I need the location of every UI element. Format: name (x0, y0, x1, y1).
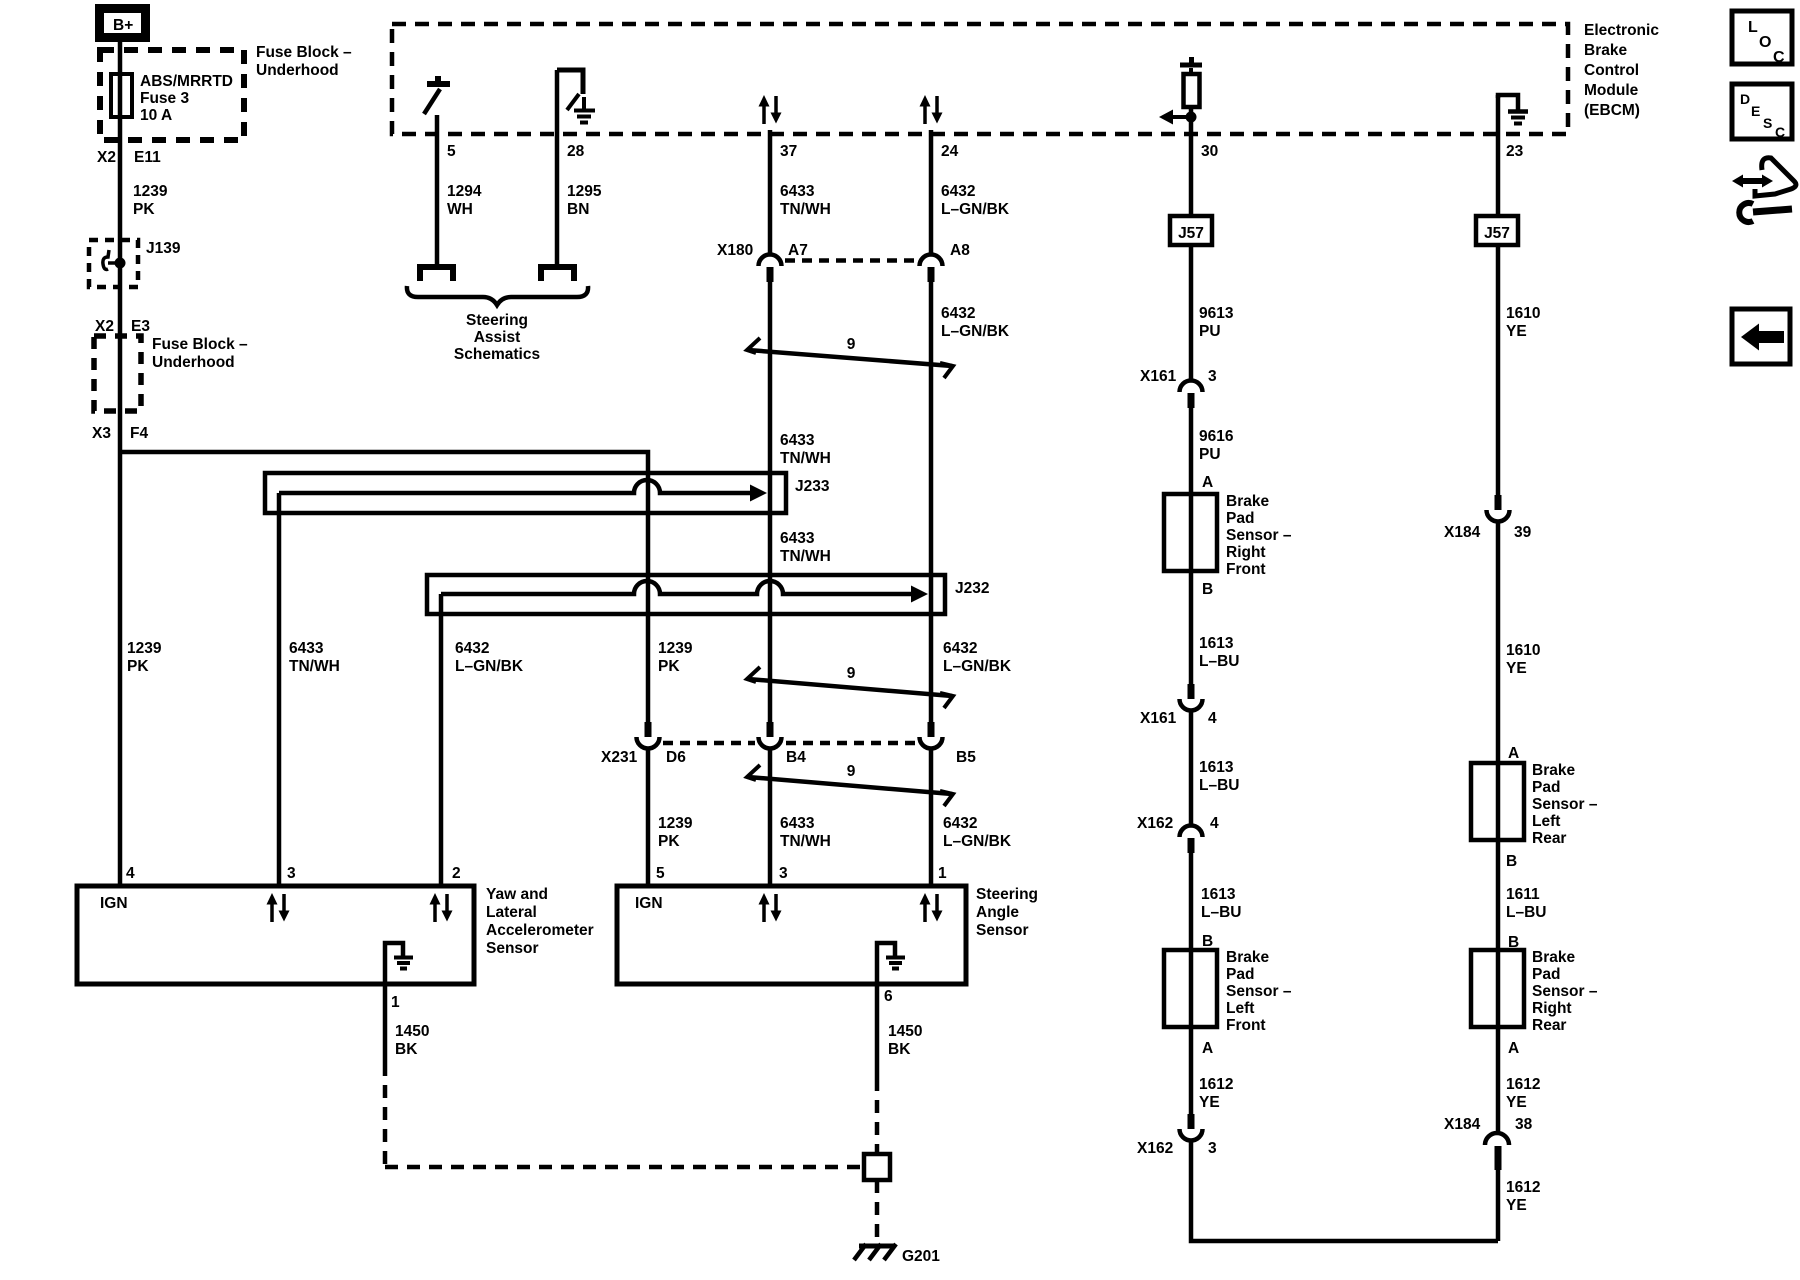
svg-text:1613: 1613 (1201, 886, 1236, 903)
connector X180 pin A8 (cap + pin) (920, 255, 943, 282)
svg-text:X2: X2 (97, 149, 116, 166)
connector X162 pin 3 (pin + cup) (1180, 1114, 1203, 1141)
svg-text:X184: X184 (1444, 524, 1481, 541)
svg-text:5: 5 (447, 143, 456, 160)
splice J57 (left) (1170, 216, 1212, 245)
connector X231 pin B4 (pin + cup) (759, 722, 782, 749)
dashed wire splice to G201 (875, 1180, 880, 1244)
svg-text:4: 4 (126, 865, 135, 882)
svg-text:Rear: Rear (1532, 830, 1566, 847)
dashed connector line X180 (785, 258, 916, 263)
svg-text:TN/WH: TN/WH (780, 833, 831, 850)
wire C5 X180 to SAS pin 3 (768, 282, 773, 722)
svg-text:F4: F4 (130, 425, 148, 442)
connector X231 pin B5 (pin + cup) (920, 722, 943, 749)
svg-text:Front: Front (1226, 1017, 1266, 1034)
svg-text:Angle: Angle (976, 904, 1019, 921)
svg-text:6: 6 (884, 988, 893, 1005)
svg-text:1239: 1239 (127, 640, 162, 657)
svg-text:TN/WH: TN/WH (780, 548, 831, 565)
svg-text:3: 3 (1208, 368, 1217, 385)
EBCM internal ground at pin 23 (1498, 95, 1528, 124)
svg-text:1294: 1294 (447, 183, 482, 200)
wire 9613 PU pin 30 to X161 (C7 upper) (1189, 133, 1194, 382)
svg-text:Assist: Assist (474, 329, 521, 346)
SAS bidirectional arrows (pin 3) (759, 893, 782, 922)
svg-text:Underhood: Underhood (152, 354, 235, 371)
brake pad sensor left rear box (1471, 763, 1524, 840)
svg-text:Right: Right (1226, 544, 1266, 561)
svg-text:X162: X162 (1137, 1140, 1173, 1157)
svg-text:6432: 6432 (943, 640, 977, 657)
svg-text:1613: 1613 (1199, 635, 1234, 652)
wire 6433 TN/WH J233 to yaw sensor pin 3 (C2) (277, 493, 282, 886)
connector X184 pin 39 (pin + cup) (1487, 495, 1510, 522)
svg-text:9: 9 (847, 763, 856, 780)
svg-text:1611: 1611 (1506, 886, 1540, 903)
icon DESC box (1732, 84, 1792, 140)
yaw sensor bidirectional arrows (pin 3) (267, 893, 290, 922)
svg-text:6433: 6433 (780, 183, 815, 200)
wire 1611 L-BU (1496, 840, 1501, 950)
svg-text:X162: X162 (1137, 815, 1173, 832)
EBCM bidirectional signal arrows at pin 24 (920, 95, 943, 124)
svg-text:6433: 6433 (780, 432, 815, 449)
svg-text:YE: YE (1199, 1094, 1220, 1111)
svg-text:YE: YE (1506, 1094, 1527, 1111)
svg-text:L–GN/BK: L–GN/BK (455, 658, 524, 675)
svg-text:23: 23 (1506, 143, 1524, 160)
svg-text:Rear: Rear (1532, 1017, 1566, 1034)
EBCM internal fused output at pin 30 (1159, 57, 1202, 133)
svg-text:J233: J233 (795, 478, 830, 495)
SAS internal ground symbol (877, 943, 905, 984)
yaw sensor bidirectional arrows (pin 2) (430, 893, 453, 922)
svg-text:YE: YE (1506, 323, 1527, 340)
svg-text:A7: A7 (788, 242, 808, 259)
ground G201 symbol (854, 1244, 896, 1260)
svg-text:IGN: IGN (635, 895, 663, 912)
svg-text:L–BU: L–BU (1199, 653, 1239, 670)
svg-text:B: B (1202, 933, 1213, 950)
svg-text:30: 30 (1201, 143, 1218, 160)
svg-text:L–GN/BK: L–GN/BK (941, 201, 1010, 218)
twisted pair symbol 9 (middle) (747, 665, 953, 708)
wire 1612 YE (1496, 1027, 1501, 1131)
svg-text:Lateral: Lateral (486, 904, 537, 921)
SAS bidirectional arrows (pin 1) (920, 893, 943, 922)
svg-text:YE: YE (1506, 660, 1527, 677)
dashed ground link to splice (385, 1165, 864, 1170)
svg-text:Pad: Pad (1532, 966, 1560, 983)
svg-text:1239: 1239 (658, 815, 693, 832)
steering angle sensor box (617, 886, 966, 984)
svg-text:38: 38 (1515, 1116, 1533, 1133)
svg-text:37: 37 (780, 143, 797, 160)
brake pad sensor right front box (1164, 494, 1217, 571)
brake pad sensor left front box (1164, 950, 1217, 1027)
svg-text:6433: 6433 (780, 530, 815, 547)
wire branch F4 to steering angle sensor IGN (C4 top) (120, 452, 648, 722)
svg-text:1450: 1450 (888, 1023, 922, 1040)
splice pack J233 box (265, 473, 786, 513)
EBCM module dashed box (392, 24, 1568, 134)
svg-text:L–GN/BK: L–GN/BK (943, 658, 1012, 675)
svg-text:Module: Module (1584, 82, 1639, 99)
icon diagnostic tools (1732, 158, 1796, 222)
svg-text:6432: 6432 (455, 640, 489, 657)
wire C6 X231 to SAS pin 1 (929, 748, 934, 886)
fuse block underhood dashed box (lower) (94, 336, 141, 411)
svg-text:L–BU: L–BU (1199, 777, 1239, 794)
svg-text:A: A (1202, 1040, 1213, 1057)
svg-text:J139: J139 (146, 240, 181, 257)
svg-text:L–GN/BK: L–GN/BK (941, 323, 1010, 340)
connector X231 pin D6 (pin + cup) (637, 722, 660, 749)
svg-text:C: C (1775, 124, 1785, 140)
svg-text:6432: 6432 (943, 815, 977, 832)
svg-text:Accelerometer: Accelerometer (486, 922, 594, 939)
svg-text:Schematics: Schematics (454, 346, 540, 363)
connector X162 pin 4 (cap + pin) (1180, 826, 1203, 854)
svg-text:28: 28 (567, 143, 585, 160)
svg-text:TN/WH: TN/WH (780, 201, 831, 218)
svg-text:Brake: Brake (1226, 949, 1269, 966)
splice pack J232 box (427, 575, 945, 614)
connector X161 pin 3 (cap + pin) (1180, 381, 1203, 409)
svg-text:Sensor –: Sensor – (1532, 983, 1598, 1000)
svg-text:3: 3 (287, 865, 296, 882)
svg-text:9: 9 (847, 336, 856, 353)
svg-text:Steering: Steering (466, 312, 528, 329)
svg-text:Sensor –: Sensor – (1532, 796, 1598, 813)
svg-text:Control: Control (1584, 62, 1639, 79)
splice J57 (right) (1476, 216, 1518, 245)
svg-text:3: 3 (779, 865, 788, 882)
svg-text:1613: 1613 (1199, 759, 1234, 776)
svg-text:5: 5 (656, 865, 665, 882)
wire 1610 YE (1496, 521, 1501, 763)
svg-text:L: L (1748, 19, 1758, 36)
svg-text:9613: 9613 (1199, 305, 1234, 322)
svg-text:ABS/MRRTD: ABS/MRRTD (140, 73, 233, 90)
svg-text:(EBCM): (EBCM) (1584, 102, 1640, 119)
svg-text:Fuse 3: Fuse 3 (140, 90, 189, 107)
fuse block underhood dashed box (top) (100, 50, 244, 140)
svg-text:TN/WH: TN/WH (780, 450, 831, 467)
junction J139 dashed box (89, 240, 138, 287)
wire 1612 YE bottom link right (1496, 1170, 1501, 1241)
wire 1613 L-BU (1189, 710, 1194, 827)
wire EBCM pin 28 to terminal 1295 BN (555, 70, 560, 264)
svg-text:Left: Left (1226, 1000, 1254, 1017)
yaw and lateral accelerometer sensor box (77, 886, 474, 984)
svg-text:J57: J57 (1484, 225, 1510, 242)
svg-text:Yaw and: Yaw and (486, 886, 548, 903)
wire 1450 BK from yaw sensor pin 1 (383, 984, 388, 1063)
splice pack J233 internal bus with hop and arrow (279, 480, 752, 493)
svg-text:Pad: Pad (1226, 510, 1254, 527)
svg-text:1612: 1612 (1199, 1076, 1233, 1093)
svg-text:D6: D6 (666, 749, 686, 766)
svg-text:X184: X184 (1444, 1116, 1481, 1133)
EBCM internal switch at pin 5 (424, 76, 450, 114)
wire 1613 L-BU (1189, 853, 1194, 950)
wire B+ feed vertical 1239 PK (C1) (118, 42, 123, 886)
svg-text:4: 4 (1210, 815, 1219, 832)
terminal receptacle under wire 5 (420, 267, 453, 281)
svg-text:1: 1 (938, 865, 947, 882)
svg-text:Right: Right (1532, 1000, 1572, 1017)
svg-text:X3: X3 (92, 425, 111, 442)
svg-text:L–GN/BK: L–GN/BK (943, 833, 1012, 850)
svg-text:1610: 1610 (1506, 305, 1540, 322)
svg-text:Fuse Block –: Fuse Block – (256, 44, 352, 61)
svg-text:4: 4 (1208, 710, 1217, 727)
icon LOC box (1732, 11, 1792, 66)
ground splice junction square (864, 1154, 890, 1180)
svg-text:J57: J57 (1178, 225, 1204, 242)
svg-text:3: 3 (1208, 1140, 1217, 1157)
svg-text:X161: X161 (1140, 368, 1177, 385)
svg-text:A: A (1508, 745, 1519, 762)
wire EBCM pin 5 to terminal 1294 WH (435, 115, 440, 264)
EBCM bidirectional signal arrows at pin 37 (759, 95, 782, 124)
wire 6432 L-GN/BK J232 to yaw sensor pin 2 (C3) (439, 594, 444, 886)
wire 1450 BK from SAS pin 6 (875, 984, 880, 1078)
svg-text:Sensor: Sensor (486, 940, 539, 957)
svg-text:6432: 6432 (941, 305, 975, 322)
wire C5 X231 to SAS pin 3 (768, 748, 773, 886)
wire 9616 PU (1189, 408, 1194, 494)
svg-text:BK: BK (888, 1041, 911, 1058)
svg-text:E: E (1751, 103, 1760, 119)
yaw sensor internal ground symbol (385, 943, 413, 984)
svg-text:1239: 1239 (658, 640, 693, 657)
svg-text:E3: E3 (131, 318, 150, 335)
splice pack J232 internal bus with hops and arrow (441, 581, 913, 594)
svg-text:1239: 1239 (133, 183, 168, 200)
svg-text:Pad: Pad (1226, 966, 1254, 983)
twisted pair symbol 9 (upper) (747, 336, 953, 378)
wire bottom link left (1191, 1140, 1498, 1241)
brace steering assist schematics (407, 286, 588, 305)
svg-text:PK: PK (658, 833, 680, 850)
svg-text:Brake: Brake (1532, 762, 1575, 779)
svg-text:2: 2 (452, 865, 461, 882)
svg-text:X2: X2 (95, 318, 114, 335)
brake pad sensor right rear box (1471, 950, 1524, 1027)
dashed connector line X231 (663, 741, 916, 746)
J139 splice dot and clip (115, 258, 126, 269)
svg-text:B: B (1506, 853, 1517, 870)
svg-text:Sensor –: Sensor – (1226, 527, 1292, 544)
svg-text:B4: B4 (786, 749, 806, 766)
wire 6432 L-GN/BK pin 24 to X180 A8 (C6 upper) (929, 130, 934, 256)
svg-text:Fuse Block –: Fuse Block – (152, 336, 248, 353)
svg-text:PK: PK (127, 658, 149, 675)
wire C4 X231 to SAS pin 5 (646, 748, 651, 886)
svg-text:X180: X180 (717, 242, 753, 259)
svg-text:E11: E11 (134, 149, 161, 166)
svg-text:B+: B+ (113, 17, 133, 34)
svg-text:Front: Front (1226, 561, 1266, 578)
wire C6 X180 to SAS pin 1 (929, 282, 934, 722)
svg-text:PU: PU (1199, 323, 1221, 340)
svg-text:Sensor –: Sensor – (1226, 983, 1292, 1000)
EBCM internal switch-to-ground at pin 28 (557, 70, 595, 123)
svg-text:9: 9 (847, 665, 856, 682)
connector X180 pin A7 (cap + pin) (759, 255, 782, 282)
svg-text:Steering: Steering (976, 886, 1038, 903)
connector X184 pin 38 (cap + pin) (1485, 1133, 1509, 1170)
svg-text:Brake: Brake (1584, 42, 1627, 59)
icon back arrow box (1732, 309, 1790, 364)
svg-text:6433: 6433 (289, 640, 324, 657)
svg-text:L–BU: L–BU (1201, 904, 1241, 921)
svg-text:6433: 6433 (780, 815, 815, 832)
svg-text:10 A: 10 A (140, 107, 172, 124)
svg-text:PK: PK (133, 201, 155, 218)
wire 1612 YE (1189, 1027, 1194, 1114)
svg-text:1: 1 (391, 994, 400, 1011)
svg-text:1612: 1612 (1506, 1076, 1540, 1093)
svg-text:PU: PU (1199, 446, 1221, 463)
svg-text:PK: PK (658, 658, 680, 675)
svg-text:Brake: Brake (1226, 493, 1269, 510)
svg-text:C: C (1773, 49, 1785, 66)
svg-text:Brake: Brake (1532, 949, 1575, 966)
wire 1610 YE pin 23 to X184 (C8 upper) (1496, 95, 1501, 495)
wire 1613 L-BU (1189, 571, 1194, 684)
svg-text:J232: J232 (955, 580, 989, 597)
svg-text:1450: 1450 (395, 1023, 429, 1040)
svg-text:G201: G201 (902, 1248, 940, 1265)
svg-text:S: S (1763, 115, 1772, 131)
svg-text:1612: 1612 (1506, 1179, 1540, 1196)
svg-text:BK: BK (395, 1041, 418, 1058)
svg-text:6432: 6432 (941, 183, 975, 200)
svg-text:Left: Left (1532, 813, 1560, 830)
svg-text:X231: X231 (601, 749, 638, 766)
svg-text:1295: 1295 (567, 183, 602, 200)
svg-text:TN/WH: TN/WH (289, 658, 340, 675)
svg-text:Electronic: Electronic (1584, 22, 1659, 39)
svg-text:39: 39 (1514, 524, 1532, 541)
svg-text:A8: A8 (950, 242, 970, 259)
wire 6433 TN/WH pin 37 to X180 A7 (C5 upper) (768, 130, 773, 256)
svg-text:IGN: IGN (100, 895, 128, 912)
svg-text:Sensor: Sensor (976, 922, 1029, 939)
svg-text:O: O (1759, 34, 1771, 51)
twisted pair symbol 9 (lower) (747, 763, 953, 806)
fuse F3 ABS/MRRTD 10A (111, 74, 132, 117)
svg-text:B: B (1202, 581, 1213, 598)
B+ power terminal (95, 4, 150, 42)
terminal receptacle under wire 28 (541, 267, 574, 281)
svg-text:BN: BN (567, 201, 589, 218)
svg-text:D: D (1740, 91, 1750, 107)
connector X161 pin 4 (pin + cup) (1180, 684, 1203, 711)
svg-text:WH: WH (447, 201, 473, 218)
svg-text:YE: YE (1506, 1197, 1527, 1214)
svg-text:Pad: Pad (1532, 779, 1560, 796)
svg-text:L–BU: L–BU (1506, 904, 1546, 921)
svg-text:9616: 9616 (1199, 428, 1234, 445)
svg-text:24: 24 (941, 143, 959, 160)
svg-text:1610: 1610 (1506, 642, 1540, 659)
svg-text:B5: B5 (956, 749, 976, 766)
svg-text:A: A (1508, 1040, 1519, 1057)
svg-text:A: A (1202, 474, 1213, 491)
svg-text:X161: X161 (1140, 710, 1177, 727)
svg-text:Underhood: Underhood (256, 62, 339, 79)
